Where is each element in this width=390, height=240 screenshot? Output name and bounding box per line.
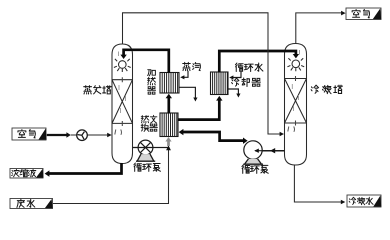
cooler E3 body xyxy=(211,72,229,95)
stream flag: condensate outlet xyxy=(347,195,381,207)
pipe: cond tower top to air-out flag (thin) xyxy=(296,13,342,44)
arrow: steam into heater (left) xyxy=(180,75,184,79)
arrow: into concentrate flag (left) xyxy=(45,170,50,176)
arrow: junction up into loop (black) xyxy=(166,145,171,150)
label: circulation pump P1 xyxy=(134,163,161,171)
heat exchanger E2 body xyxy=(160,113,178,137)
arrow: into air-out flag (right) xyxy=(341,11,346,16)
evaporation tower spray nozzle xyxy=(114,59,131,72)
pipe: steam inlet to heater xyxy=(182,71,188,78)
pipe: cooling water outlet xyxy=(228,89,238,94)
label: steam xyxy=(183,62,201,70)
label: circulation pump P2 xyxy=(242,165,268,173)
arrow: into cond spray (down) xyxy=(293,54,299,58)
evaporation tower packing section xyxy=(112,80,133,124)
arrow: cooling water into cooler (left) xyxy=(229,75,233,79)
arrow: into HX right side (left) xyxy=(179,129,184,135)
stream flag: waste water inlet xyxy=(10,199,53,209)
pipe: evap tower to pump P1 suction (thin) xyxy=(133,147,138,149)
arrow: feed into HX bottom (gray thick) xyxy=(167,141,170,146)
arrow: air toward fan (right) xyxy=(66,132,70,138)
evaporation tower sump liquid dashes xyxy=(115,130,122,135)
pipe: circulation pump P2 line to HX right lower (thick) xyxy=(183,132,243,141)
arrow: cooling water out (down) xyxy=(236,94,240,98)
label: circulating water xyxy=(235,63,263,71)
pipe: heat exchanger top to heater bottom (thick) xyxy=(167,98,170,114)
label: evaporation tower xyxy=(84,86,111,94)
circulation pump P1 xyxy=(136,140,155,161)
arrow: inside pump P2 (left) xyxy=(254,149,259,153)
arrow: heater condensate out (down) xyxy=(193,98,197,102)
pipe: cooler top to condensation tower spray (thick) xyxy=(219,51,296,73)
evaporation tower packing texture xyxy=(119,52,126,114)
condensation tower spray nozzle xyxy=(287,58,304,71)
pipe: evap tower bottom to concentrate flag (thick) xyxy=(49,163,122,174)
arrow: into condensate flag (right) xyxy=(341,200,346,205)
arrow: air into evap tower (right) xyxy=(107,133,112,138)
arrow: gas into cond tower (right) xyxy=(280,132,284,137)
pipe: cond tower bottom to condensate flag (thin) xyxy=(294,165,341,202)
condensation tower packing section xyxy=(285,79,307,124)
arrow: into evap spray (down) xyxy=(120,55,126,59)
label: condensation tower xyxy=(311,85,342,93)
arrow: into pump P2 inlet (right) xyxy=(243,138,248,144)
circulation pump P2 xyxy=(243,141,263,164)
fan B1 xyxy=(77,130,88,141)
arrow: suction toward pump P2 (left) xyxy=(270,148,275,153)
label: cooler xyxy=(232,78,261,86)
pipe: heater top to evaporation tower spray (thick) xyxy=(124,50,169,73)
stream flag: air inlet (left) xyxy=(12,128,47,140)
condensation tower vessel xyxy=(285,44,307,166)
pipe: heater condensate outlet xyxy=(179,87,195,98)
condensation tower sump liquid dashes xyxy=(288,127,295,132)
heater E1 body xyxy=(160,73,179,94)
pipe: humid gas, evap tower top to cond tower side (thin) xyxy=(123,13,281,134)
pipe: waste water feed line (thin) xyxy=(53,149,169,204)
condensation tower packing ticks xyxy=(295,76,297,126)
diagram body appended below xyxy=(112,44,307,166)
evaporation tower vessel xyxy=(112,44,133,164)
pipe: air flag to fan (thick short) xyxy=(47,134,67,136)
pipe: HX right upper to cooler bottom (thick) xyxy=(178,100,219,119)
stream flag: air outlet (top right) xyxy=(346,8,381,20)
pipe: fan connections (thin) xyxy=(71,134,108,136)
pipe: cooling water inlet to cooler xyxy=(231,72,241,78)
condensation tower packing texture xyxy=(292,50,299,111)
pipe: cond tower to pump P2 suction xyxy=(254,150,285,152)
arrow: into cooler bottom (up) xyxy=(216,96,222,101)
pipe: pump P1 discharge (thin) xyxy=(153,147,169,149)
label: heat exchanger (2x2) xyxy=(141,115,157,131)
arrow: into heater bottom (up) xyxy=(166,94,172,99)
label: heater (vertical) xyxy=(148,70,156,94)
stream flag: concentrate outlet xyxy=(10,169,44,179)
evaporation tower packing ticks xyxy=(121,77,123,126)
